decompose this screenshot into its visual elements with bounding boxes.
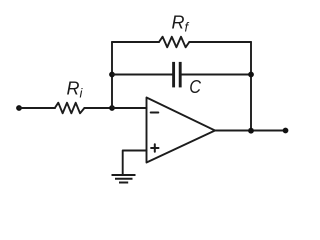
resistor Ri bbox=[55, 103, 85, 114]
input terminal dot bbox=[16, 105, 22, 111]
capacitor C plates bbox=[174, 62, 181, 88]
wire top branch right bbox=[189, 41, 251, 43]
node A junction dot bbox=[109, 105, 115, 111]
svg-text:C: C bbox=[189, 76, 201, 97]
node D junction dot (feedback to output) bbox=[248, 128, 254, 134]
wire right vertical feedback drop bbox=[250, 42, 252, 131]
wire cap branch right bbox=[180, 74, 251, 76]
ground symbol bbox=[112, 175, 136, 183]
wire node A to op-amp inverting input bbox=[112, 107, 147, 109]
output terminal dot bbox=[283, 128, 289, 134]
wire non-inverting input to ground bbox=[123, 151, 147, 175]
wire left vertical feedback riser bbox=[111, 42, 113, 108]
wire Ri to node A bbox=[84, 107, 112, 109]
op-amp U1 triangle bbox=[147, 98, 216, 163]
op-amp minus sign bbox=[151, 112, 159, 114]
wire input to Ri bbox=[19, 107, 55, 109]
wire op-amp output bbox=[215, 130, 286, 132]
wire top branch left bbox=[112, 41, 159, 43]
node C junction dot (right cap tap) bbox=[248, 72, 254, 78]
op-amp plus sign bbox=[151, 144, 158, 151]
node B junction dot (left cap tap) bbox=[109, 72, 115, 78]
wire cap branch left bbox=[112, 74, 173, 76]
resistor Rf bbox=[159, 37, 189, 48]
